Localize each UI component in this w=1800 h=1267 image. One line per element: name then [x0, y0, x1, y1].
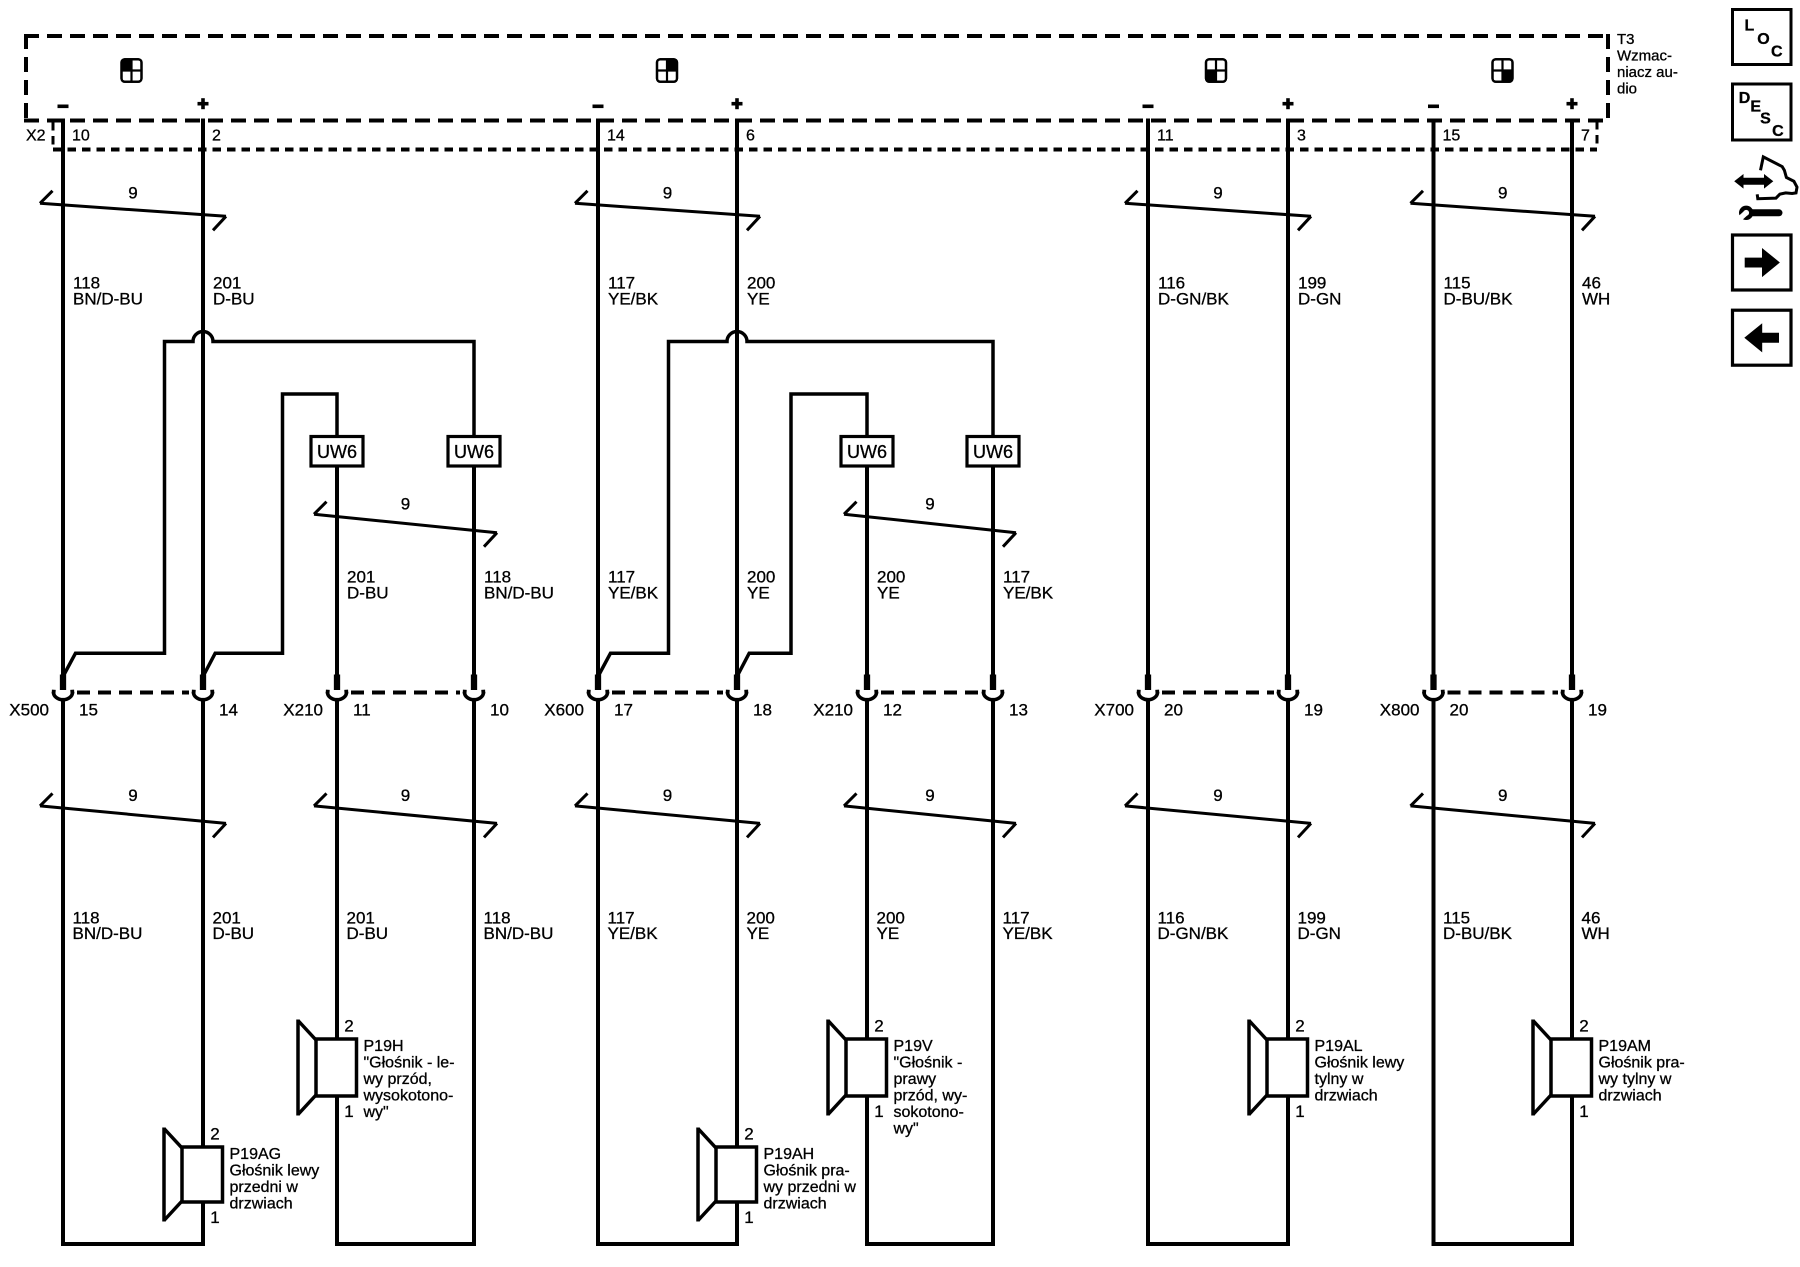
svg-text:D-BU: D-BU [213, 290, 255, 309]
wire 116 D-GN/BK (X2-11 to X700-20) [1146, 119, 1150, 676]
wire 46 WH (speaker pin 1 down) [1570, 1095, 1574, 1246]
twisted pair marker 9 [1125, 183, 1311, 230]
svg-text:9: 9 [401, 786, 410, 805]
label 118 BN/D-BU (bottom run) [73, 908, 143, 943]
svg-text:BN/D-BU: BN/D-BU [484, 583, 554, 602]
svg-text:Głośnik pra-: Głośnik pra- [764, 1163, 850, 1180]
twisted pair marker 9 [844, 786, 1016, 837]
svg-text:9: 9 [128, 786, 137, 805]
svg-text:prawy: prawy [894, 1071, 937, 1088]
inline connector X600 [544, 675, 772, 720]
polarity minus [1143, 105, 1154, 109]
wire 200 YE (X2-6 to X600-18) [735, 119, 739, 676]
svg-text:2: 2 [344, 1017, 353, 1036]
svg-text:3: 3 [1297, 128, 1306, 145]
X210 pin 11 [326, 675, 371, 720]
svg-text:wy przedni w: wy przedni w [763, 1179, 857, 1196]
svg-text:BN/D-BU: BN/D-BU [73, 924, 143, 943]
wire 117 YE/BK loop (X600-17 jog to UW6 to X210-13) [598, 332, 993, 677]
twisted pair marker 9 [1411, 183, 1596, 230]
P19AM label [1598, 1038, 1685, 1105]
X800 pin 19 [1561, 675, 1607, 720]
svg-text:20: 20 [1450, 700, 1469, 719]
nav icon forward arrow [1733, 235, 1792, 290]
svg-text:11: 11 [1157, 128, 1174, 145]
svg-text:10: 10 [490, 700, 509, 719]
wire 46 WH (X800-19 to speaker pin 2) [1570, 700, 1574, 1040]
nav icon back arrow [1733, 310, 1792, 365]
svg-text:15: 15 [79, 700, 98, 719]
svg-text:Wzmac-: Wzmac- [1617, 48, 1672, 65]
polarity minus [1428, 105, 1439, 109]
svg-text:14: 14 [607, 128, 625, 145]
wire 200 YE (speaker pin 1 down) [865, 1095, 869, 1246]
svg-text:9: 9 [1213, 786, 1222, 805]
label 116 D-GN/BK (bottom run) [1158, 908, 1230, 943]
svg-text:drzwiach: drzwiach [230, 1196, 293, 1213]
svg-text:19: 19 [1304, 700, 1323, 719]
svg-text:9: 9 [401, 494, 410, 513]
svg-text:2: 2 [210, 1125, 219, 1144]
svg-text:D-GN/BK: D-GN/BK [1158, 924, 1230, 943]
svg-text:11: 11 [353, 700, 371, 719]
twisted pair marker 9 [575, 786, 760, 837]
svg-text:Głośnik lewy: Głośnik lewy [1315, 1055, 1405, 1072]
svg-text:BN/D-BU: BN/D-BU [484, 924, 554, 943]
wire 118 BN/D-BU (X2-10 to X500-15) [61, 119, 65, 676]
wire 201 D-BU (X500-14 to speaker pin 2) [201, 700, 205, 1148]
svg-text:S: S [1760, 110, 1771, 127]
wire 201 D-BU (X210-11 to speaker pin 2) [335, 700, 339, 1040]
svg-text:L: L [1745, 17, 1755, 34]
speaker P19AH [698, 1125, 856, 1227]
svg-text:6: 6 [746, 128, 755, 145]
inline connector X210 [813, 675, 1028, 720]
svg-text:BN/D-BU: BN/D-BU [73, 290, 143, 309]
svg-text:YE/BK: YE/BK [608, 290, 659, 309]
svg-text:X600: X600 [544, 700, 584, 719]
svg-text:2: 2 [212, 128, 221, 145]
twisted pair marker 9 [575, 183, 760, 230]
svg-text:1: 1 [1295, 1102, 1304, 1121]
wire 199 D-GN (X700-19 to speaker pin 2) [1286, 700, 1290, 1040]
svg-text:1: 1 [210, 1208, 219, 1227]
connector cavity icon (top-right filled) [657, 59, 677, 81]
svg-text:X700: X700 [1094, 700, 1134, 719]
X800 pin 20 [1422, 675, 1468, 720]
svg-text:18: 18 [753, 700, 772, 719]
svg-text:"Głośnik -: "Głośnik - [894, 1055, 963, 1072]
svg-text:9: 9 [1498, 183, 1507, 202]
svg-text:10: 10 [72, 128, 90, 145]
label 118 BN/D-BU (bottom run) [484, 908, 554, 943]
svg-text:wy": wy" [893, 1121, 919, 1138]
label 199 D-GN (bottom run) [1298, 908, 1341, 943]
X500 pin 15 [52, 675, 98, 720]
svg-text:12: 12 [883, 700, 902, 719]
speaker P19H [298, 1017, 455, 1121]
inline connector X500 [9, 675, 238, 720]
svg-text:P19AM: P19AM [1599, 1038, 1651, 1055]
label 201 D-BU (bottom run) [213, 908, 255, 943]
inline connector X210 [283, 675, 509, 720]
label 201 D-BU (bottom run) [347, 908, 389, 943]
svg-text:1: 1 [1579, 1102, 1588, 1121]
svg-text:C: C [1771, 43, 1783, 60]
svg-text:drzwiach: drzwiach [764, 1196, 827, 1213]
polarity plus [732, 98, 743, 109]
svg-text:Głośnik pra-: Głośnik pra- [1599, 1055, 1685, 1072]
wire 118 BN/D-BU (UW6 to X210) [472, 465, 476, 676]
svg-text:9: 9 [1213, 183, 1222, 202]
wire 201 D-BU (X2-2 to X500-14) [201, 119, 205, 676]
wire 201 D-BU (UW6 to X210) [335, 465, 339, 676]
wire 117 YE/BK (X210-13 to speaker pin 1) [867, 700, 993, 1244]
svg-text:dio: dio [1617, 81, 1637, 98]
svg-text:2: 2 [874, 1017, 883, 1036]
label 117 YE/BK (middle run) [608, 567, 659, 602]
X600 pin 17 [587, 675, 633, 720]
wire 118 BN/D-BU (X210-10 to speaker pin 1) [337, 700, 474, 1244]
speaker P19AM [1533, 1017, 1685, 1121]
svg-text:sokotono-: sokotono- [894, 1104, 964, 1121]
label 200 YE (top run) [747, 274, 775, 309]
svg-text:P19H: P19H [364, 1038, 404, 1055]
connector cavity icon (bottom-left filled) [1206, 59, 1226, 81]
label 117 YE/BK (bottom run) [1003, 908, 1054, 943]
svg-text:YE/BK: YE/BK [608, 583, 659, 602]
svg-text:wysokotono-: wysokotono- [363, 1088, 454, 1105]
svg-text:YE: YE [877, 924, 900, 943]
label 201 D-BU (top run) [213, 274, 255, 309]
svg-text:D-GN: D-GN [1298, 924, 1341, 943]
svg-text:"Głośnik - le-: "Głośnik - le- [364, 1055, 455, 1072]
wire 200 YE (X210-12 to speaker pin 2) [865, 700, 869, 1040]
svg-text:2: 2 [1579, 1017, 1588, 1036]
twisted pair marker 9 [40, 786, 226, 837]
svg-text:20: 20 [1164, 700, 1183, 719]
label 200 YE (bottom run) [747, 908, 775, 943]
X600 pin 18 [726, 675, 772, 720]
svg-text:przedni w: przedni w [230, 1179, 299, 1196]
label 200 YE (bottom run) [877, 908, 905, 943]
wire 200 YE (UW6 to X210) [865, 465, 869, 676]
label 117 YE/BK (top run) [608, 274, 659, 309]
svg-text:WH: WH [1582, 924, 1610, 943]
inline connector X700 [1094, 675, 1323, 720]
polarity plus [1567, 98, 1578, 109]
svg-text:X210: X210 [813, 700, 853, 719]
option box UW6 [841, 437, 893, 467]
svg-text:T3: T3 [1617, 31, 1635, 48]
speaker P19AG [164, 1125, 319, 1227]
label 46 WH (top run) [1582, 274, 1610, 309]
wire 200 YE (speaker pin 1 down) [735, 1201, 739, 1246]
X210 pin 13 [982, 675, 1028, 720]
svg-text:O: O [1757, 31, 1769, 48]
label 118 BN/D-BU (top run) [73, 274, 143, 309]
svg-text:D-BU: D-BU [347, 583, 389, 602]
svg-text:17: 17 [614, 700, 633, 719]
label 117 YE/BK (bottom run) [608, 908, 659, 943]
svg-text:YE: YE [747, 290, 770, 309]
wire 199 D-GN (speaker pin 1 down) [1286, 1095, 1290, 1246]
svg-text:UW6: UW6 [317, 442, 357, 462]
label 116 D-GN/BK (top run) [1158, 274, 1230, 309]
connector cavity icon (top-left filled) [122, 59, 142, 81]
label 199 D-GN (top run) [1298, 274, 1341, 309]
svg-text:14: 14 [219, 700, 238, 719]
twisted pair marker 9 [1411, 786, 1596, 837]
label 118 BN/D-BU (middle run) [484, 567, 554, 602]
label 117 YE/BK (middle run) [1003, 567, 1054, 602]
P19AH label [763, 1146, 857, 1213]
wire 118 BN/D-BU (X500-15 to speaker pin 1) [63, 700, 203, 1244]
X210 pin 10 [463, 675, 509, 720]
svg-text:2: 2 [1295, 1017, 1304, 1036]
svg-text:wy tylny w: wy tylny w [1598, 1071, 1672, 1088]
svg-text:YE: YE [747, 583, 770, 602]
wire 200 YE (X600-18 to speaker pin 2) [735, 700, 739, 1148]
wire 116 D-GN/BK (X700-20 to speaker pin 1) [1148, 700, 1288, 1244]
speaker P19AL [1249, 1017, 1404, 1121]
svg-text:D-BU: D-BU [347, 924, 389, 943]
wire 117 YE/BK (X2-14 to X600-17) [596, 119, 600, 676]
svg-text:15: 15 [1443, 128, 1461, 145]
nav icon DESC [1733, 84, 1792, 140]
wire 201 D-BU (speaker pin 1 down) [201, 1201, 205, 1246]
label 201 D-BU (middle run) [347, 567, 389, 602]
X700 pin 20 [1137, 675, 1183, 720]
svg-text:X210: X210 [283, 700, 323, 719]
label 200 YE (middle run) [747, 567, 775, 602]
svg-text:YE: YE [747, 924, 770, 943]
twisted pair marker 9 [314, 494, 497, 546]
svg-text:UW6: UW6 [454, 442, 494, 462]
twisted pair marker 9 [40, 183, 226, 230]
svg-text:7: 7 [1581, 128, 1590, 145]
svg-text:YE/BK: YE/BK [608, 924, 659, 943]
polarity plus [1283, 98, 1294, 109]
wire 46 WH (X2-7 to X800-19) [1570, 119, 1574, 676]
svg-text:niacz au-: niacz au- [1617, 64, 1678, 81]
svg-text:X2: X2 [26, 128, 46, 145]
P19AL label [1315, 1038, 1405, 1105]
option box UW6 [448, 437, 500, 467]
svg-text:19: 19 [1588, 700, 1607, 719]
amplifier T3 dashed box [24, 34, 1610, 122]
label 200 YE (middle run) [877, 567, 905, 602]
option box UW6 [967, 437, 1019, 467]
label 115 D-BU/BK (top run) [1444, 274, 1514, 309]
connector cavity icon (bottom-right filled) [1493, 59, 1513, 81]
svg-text:wy przód,: wy przód, [363, 1071, 432, 1088]
svg-text:1: 1 [744, 1208, 753, 1227]
svg-text:drzwiach: drzwiach [1315, 1088, 1378, 1105]
svg-text:P19AG: P19AG [230, 1146, 282, 1163]
wire 117 YE/BK (UW6 to X210) [991, 465, 995, 676]
svg-text:X800: X800 [1380, 700, 1420, 719]
svg-text:P19AH: P19AH [764, 1146, 815, 1163]
option box UW6 [311, 437, 363, 467]
twisted pair marker 9 [844, 494, 1016, 546]
nav icon LOC [1733, 10, 1792, 65]
speaker P19V [828, 1017, 967, 1138]
svg-text:tylny w: tylny w [1315, 1071, 1364, 1088]
svg-text:9: 9 [925, 494, 934, 513]
icon component view (car, double arrow, wrench) [1735, 157, 1797, 222]
svg-text:D-BU/BK: D-BU/BK [1443, 924, 1513, 943]
svg-text:1: 1 [344, 1102, 353, 1121]
svg-text:9: 9 [925, 786, 934, 805]
wire 201 D-BU (speaker pin 1 down) [335, 1095, 339, 1246]
svg-text:przód, wy-: przód, wy- [894, 1088, 968, 1105]
svg-text:1: 1 [874, 1102, 883, 1121]
svg-text:X500: X500 [9, 700, 49, 719]
connector X2 face line [53, 121, 1597, 150]
wire 201 D-BU loop (X500-14 jog to UW6 to X210-11) [203, 394, 337, 677]
svg-text:C: C [1772, 123, 1784, 140]
inline connector X800 [1380, 675, 1607, 720]
svg-text:YE/BK: YE/BK [1003, 583, 1054, 602]
wire 199 D-GN (X2-3 to X700-19) [1286, 119, 1290, 676]
label 115 D-BU/BK (bottom run) [1443, 908, 1513, 943]
svg-text:13: 13 [1009, 700, 1028, 719]
svg-text:9: 9 [663, 183, 672, 202]
amplifier label T3 Wzmacniacz audio [1617, 31, 1678, 98]
svg-text:WH: WH [1582, 290, 1610, 309]
wire 200 YE loop (X600-18 jog to UW6 to X210-12) [737, 394, 867, 677]
svg-text:YE/BK: YE/BK [1003, 924, 1054, 943]
P19AG label [230, 1146, 320, 1213]
svg-text:9: 9 [1498, 786, 1507, 805]
X700 pin 19 [1277, 675, 1323, 720]
wire 117 YE/BK (X600-17 to speaker pin 1) [598, 700, 737, 1244]
svg-text:2: 2 [744, 1125, 753, 1144]
P19H label [363, 1038, 455, 1121]
P19V label [893, 1038, 968, 1138]
label 46 WH (bottom run) [1582, 908, 1610, 943]
svg-text:D: D [1739, 90, 1751, 107]
svg-text:UW6: UW6 [847, 442, 887, 462]
svg-text:D-BU: D-BU [213, 924, 255, 943]
polarity plus [198, 98, 209, 109]
twisted pair marker 9 [1125, 786, 1311, 837]
X210 pin 12 [856, 675, 902, 720]
svg-text:P19V: P19V [894, 1038, 933, 1055]
wire 118 BN/D-BU loop (X500-15 jog to UW6 to X210-10) [63, 332, 474, 677]
polarity minus [58, 105, 69, 109]
svg-text:9: 9 [663, 786, 672, 805]
twisted pair marker 9 [314, 786, 497, 837]
svg-text:D-BU/BK: D-BU/BK [1444, 290, 1514, 309]
polarity minus [593, 105, 604, 109]
svg-text:Głośnik lewy: Głośnik lewy [230, 1163, 320, 1180]
wire 115 D-BU/BK (X2-15 to X800-20) [1432, 119, 1436, 676]
svg-text:UW6: UW6 [973, 442, 1013, 462]
svg-text:D-GN: D-GN [1298, 290, 1341, 309]
svg-text:wy": wy" [363, 1104, 389, 1121]
wire 115 D-BU/BK (X800-20 to speaker pin 1) [1434, 700, 1573, 1244]
svg-text:YE: YE [877, 583, 900, 602]
svg-text:D-GN/BK: D-GN/BK [1158, 290, 1230, 309]
X500 pin 14 [192, 675, 238, 720]
svg-text:P19AL: P19AL [1315, 1038, 1363, 1055]
svg-text:drzwiach: drzwiach [1599, 1088, 1662, 1105]
svg-text:9: 9 [128, 183, 137, 202]
